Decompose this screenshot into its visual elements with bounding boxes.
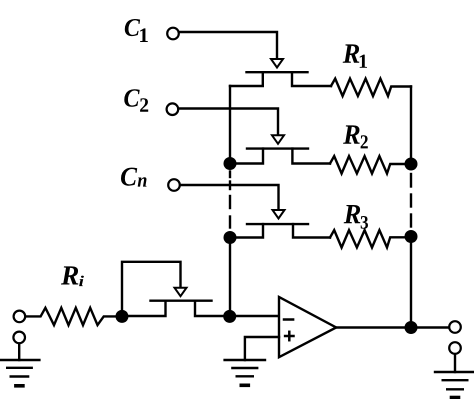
- left rail solid upper: [229, 86, 231, 164]
- output terminal: [449, 321, 461, 333]
- transistor Q1: [230, 59, 331, 86]
- node: summing junction: [223, 310, 236, 323]
- label C2: [124, 89, 148, 112]
- ground (input): [0, 344, 39, 386]
- ground terminal circle (output): [449, 342, 461, 354]
- wire op-amp output: [336, 326, 448, 328]
- left rail solid lower: [229, 238, 231, 317]
- wire C2 to gate of Q2: [179, 109, 278, 136]
- ground terminal circle (input): [13, 332, 25, 344]
- wire C1 to gate of Q1: [180, 32, 277, 59]
- input terminal: [14, 311, 26, 323]
- terminal Cn: [168, 179, 180, 191]
- label R2: [343, 125, 368, 148]
- resistor R2: [330, 156, 411, 173]
- node: rail-Q3 junction: [224, 231, 237, 244]
- transistor Q3: [230, 210, 330, 238]
- terminal C1: [167, 28, 179, 40]
- node: output junction: [405, 321, 418, 334]
- ground (output): [435, 354, 474, 397]
- label R1: [343, 44, 367, 67]
- label C1: [125, 19, 148, 42]
- node: Ri-Q4 junction: [116, 310, 129, 323]
- label Ri: [61, 266, 84, 286]
- transistor Q4: [128, 288, 230, 316]
- ground (op-amp): [225, 360, 265, 385]
- node: rail-Q2 junction: [224, 157, 237, 170]
- wire Cn to gate of Q3: [181, 185, 279, 210]
- resistor R1: [331, 79, 411, 96]
- op-amp U1: [279, 297, 336, 357]
- resistor Ri: [26, 308, 116, 325]
- right rail solid lower: [410, 237, 412, 328]
- wire to op-amp inverting input: [230, 315, 279, 317]
- left rail dashed: [229, 172, 231, 228]
- resistor R3: [330, 230, 411, 247]
- wire non-inverting input to ground: [245, 337, 279, 360]
- transistor Q2: [230, 135, 330, 163]
- label R3: [344, 205, 368, 229]
- right rail solid upper: [410, 87, 412, 165]
- node: R2 right junction: [405, 158, 418, 171]
- right rail dashed: [410, 174, 412, 227]
- node: R3 right junction: [405, 230, 418, 243]
- wire Q4 gate loop: [122, 262, 181, 310]
- label Cn: [121, 168, 147, 187]
- terminal C2: [167, 103, 179, 115]
